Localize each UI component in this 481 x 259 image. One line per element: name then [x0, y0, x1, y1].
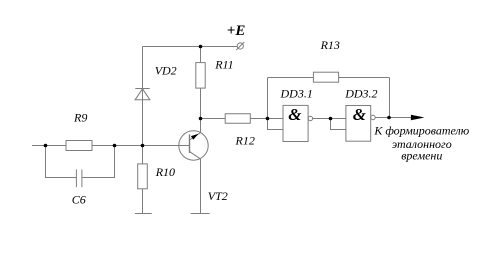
svg-text:R11: R11 — [214, 58, 233, 72]
resistor R9 — [66, 141, 92, 151]
svg-text:DD3.1: DD3.1 — [280, 86, 313, 100]
svg-text:R13: R13 — [320, 38, 340, 52]
wire C6 branch right drop — [82, 146, 115, 178]
svg-text:R10: R10 — [155, 165, 175, 179]
wire R13 feedback top — [268, 77, 390, 79]
resistor R11 — [196, 63, 205, 89]
wire R13 feedback left drop — [267, 78, 269, 119]
terminal +E — [236, 42, 244, 50]
node +E rail — [199, 45, 203, 49]
ground R10 — [135, 213, 152, 215]
wire DD3.2 lower input branch — [331, 119, 346, 130]
svg-text:&: & — [353, 105, 367, 124]
svg-text:R9: R9 — [73, 111, 87, 125]
wire R13 feedback right drop — [389, 78, 391, 118]
gate DD3.2 output bubble — [371, 115, 375, 119]
node DD3.2 input — [329, 117, 333, 121]
wire top +E rail — [143, 46, 238, 48]
wire DD3.1 lower input branch — [268, 119, 284, 130]
resistor R12 — [225, 114, 250, 124]
gate DD3.1 output bubble — [308, 116, 312, 120]
svg-text:DD3.2: DD3.2 — [344, 87, 377, 101]
wire DD3.2 output — [375, 117, 411, 119]
gate DD3.1 — [283, 105, 308, 141]
ground VT2 — [191, 213, 210, 215]
node DD3.1 input — [266, 117, 270, 121]
svg-text:&: & — [288, 105, 302, 124]
gate DD3.2 — [346, 106, 371, 142]
svg-text:VD2: VD2 — [155, 63, 177, 77]
output arrow — [411, 115, 425, 120]
svg-text:времени: времени — [401, 149, 442, 163]
wire C6 branch left drop — [46, 146, 77, 178]
wire R12 horizontal collector to DD3.1 — [201, 118, 284, 120]
wire R11 vertical — [200, 47, 202, 119]
diode VD2 — [135, 89, 150, 100]
wire main horizontal base line — [32, 145, 190, 147]
svg-text:+E: +E — [227, 23, 246, 39]
transistor VT2 — [179, 119, 208, 161]
wire VD2 vertical — [142, 47, 144, 146]
svg-text:C6: C6 — [72, 193, 86, 207]
node collector — [199, 117, 203, 121]
node R9-C6 left — [44, 144, 48, 148]
capacitor C6 — [76, 169, 82, 187]
wire R10 vertical — [142, 146, 144, 214]
resistor R13 — [313, 72, 338, 82]
wire emitter to ground — [200, 159, 202, 214]
svg-text:R12: R12 — [235, 134, 255, 148]
node DD3.2 output — [387, 116, 391, 120]
transistor VT2 emitter arrow — [191, 134, 199, 140]
wire DD3.1 output to DD3.2 — [313, 118, 346, 120]
svg-text:К формирователю: К формирователю — [373, 124, 469, 138]
node R9-C6 right — [113, 144, 117, 148]
svg-text:VT2: VT2 — [208, 189, 228, 203]
node VD2-R10 — [141, 144, 145, 148]
resistor R10 — [138, 164, 148, 189]
